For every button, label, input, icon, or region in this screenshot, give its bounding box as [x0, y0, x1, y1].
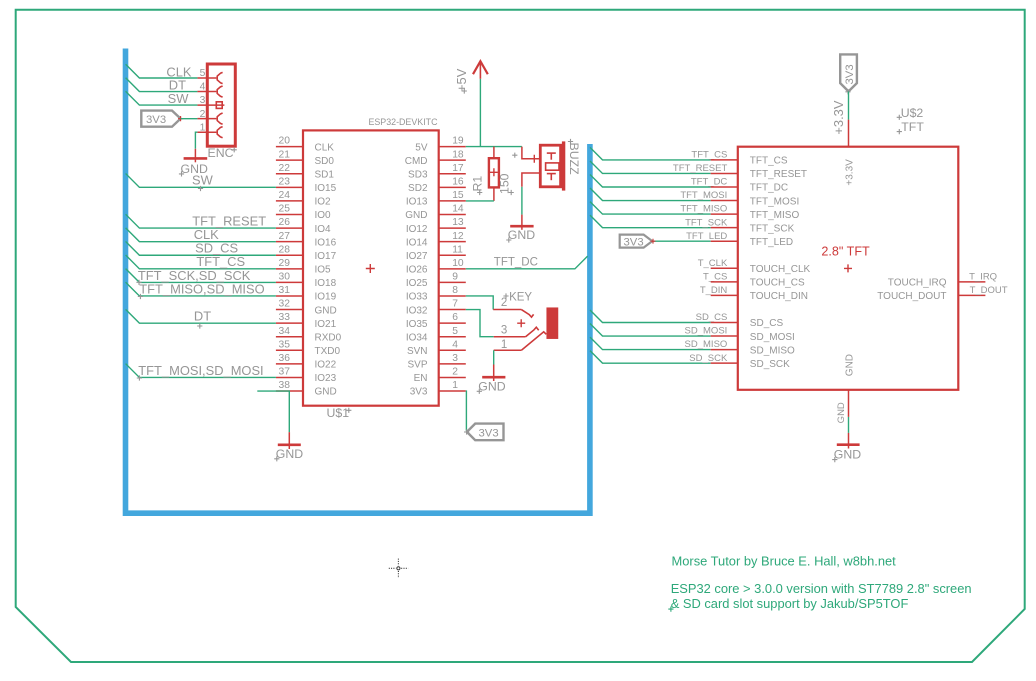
svg-text:IO23: IO23 — [315, 373, 337, 384]
svg-text:5: 5 — [452, 326, 458, 337]
svg-text:TFT_MOSI,SD_MOSI: TFT_MOSI,SD_MOSI — [138, 363, 263, 378]
svg-text:TFT_DC: TFT_DC — [494, 256, 538, 268]
svg-text:TFT_RESET: TFT_RESET — [673, 163, 728, 174]
svg-text:SD_MISO: SD_MISO — [685, 339, 728, 350]
svg-text:3V3: 3V3 — [624, 236, 644, 248]
power symbol +5V stem — [479, 61, 481, 79]
svg-text:TFT_CS: TFT_CS — [691, 150, 727, 161]
svg-text:TOUCH_DIN: TOUCH_DIN — [750, 291, 808, 302]
wire net TFT_MISO,SD_MISO (bus tap to ESP32 pin 31) — [126, 282, 276, 296]
power flag 3V3 tip cross — [178, 116, 183, 121]
svg-text:1: 1 — [452, 380, 458, 391]
wire net CLK (bus tap to ENC pin 5) — [126, 64, 198, 78]
svg-text:TFT_DC: TFT_DC — [750, 183, 788, 194]
svg-text:TFT: TFT — [901, 120, 924, 134]
wire net GND (ENC pin 1 down) — [195, 132, 197, 149]
svg-text:CLK: CLK — [315, 142, 335, 153]
module value origin cross — [897, 129, 902, 134]
wire net TFT_MOSI (bus tap to TFT) — [590, 188, 711, 201]
note text origin cross — [668, 607, 673, 612]
ground label origin cross — [506, 237, 511, 242]
module U$2 2.8" TFT body — [738, 147, 959, 390]
ground symbol GND (below buzzer) bar — [510, 225, 533, 228]
connector ENC pin 1 line — [197, 131, 216, 133]
wire net TFT_SCK (bus tap to TFT) — [590, 215, 711, 228]
TFT left pin TFT_SCK line — [711, 227, 738, 229]
TFT left pin SD_MISO line — [711, 349, 738, 351]
svg-text:36: 36 — [279, 353, 291, 364]
connector ENC label origin cross — [232, 147, 237, 152]
ESP32 left pin 25 line — [276, 214, 303, 216]
ESP32 right pin 13 line — [439, 227, 466, 229]
svg-text:9: 9 — [452, 272, 458, 283]
wire net TFT_DC (bus tap to TFT) — [590, 175, 711, 188]
ESP32 left pin 36 line — [276, 363, 303, 365]
svg-text:3V3: 3V3 — [844, 64, 856, 84]
ground label origin cross — [274, 456, 279, 461]
svg-text:GND: GND — [508, 228, 535, 242]
ESP32 right pin 10 line — [439, 268, 466, 270]
svg-text:GND: GND — [478, 379, 505, 393]
svg-text:16: 16 — [452, 176, 464, 187]
svg-text:GND: GND — [836, 402, 847, 423]
svg-text:17: 17 — [452, 163, 464, 174]
power flag tip cross — [651, 239, 656, 244]
bus B$1 (blue wiring bus, left/bottom/right run) — [126, 49, 590, 514]
svg-text:5: 5 — [200, 68, 206, 79]
connector ENC pin 3 line — [197, 104, 224, 106]
wire net TFT_RESET (bus tap to ESP32 pin 26) — [126, 214, 276, 228]
ground symbol GND (below TFT) stem — [848, 433, 850, 449]
TFT left pin TFT_CS line — [711, 159, 738, 161]
svg-text:TFT_MISO,SD_MISO: TFT_MISO,SD_MISO — [139, 281, 264, 296]
module U$1 ESP32-DEVKITC body — [303, 130, 439, 405]
buzzer BUZZ element top stem — [550, 153, 552, 160]
ESP32 right pin 5 line — [439, 336, 466, 338]
wire net IO13 (ESP32 pin 15 to R1) — [466, 200, 494, 202]
svg-text:32: 32 — [279, 299, 291, 310]
svg-text:TFT_RESET: TFT_RESET — [750, 169, 807, 180]
svg-text:GND: GND — [315, 387, 337, 398]
svg-text:+3.3V: +3.3V — [845, 159, 856, 186]
svg-text:1: 1 — [501, 339, 507, 351]
svg-text:28: 28 — [279, 244, 291, 255]
ESP32 left pin 37 line — [276, 376, 303, 378]
TFT right pin TOUCH_IRQ line — [958, 281, 985, 283]
svg-text:3: 3 — [200, 95, 206, 106]
jack KEY name origin cross — [503, 293, 508, 298]
svg-text:GND: GND — [315, 305, 337, 316]
buzzer BUZZ element plate — [546, 163, 559, 170]
svg-text:TOUCH_IRQ: TOUCH_IRQ — [888, 278, 947, 289]
TFT left pin TFT_DC line — [711, 186, 738, 188]
power flag 3V3 (TFT_LED) — [620, 235, 653, 248]
connector ENC body — [207, 64, 235, 146]
power symbol tip cross — [845, 89, 850, 94]
svg-text:3V3: 3V3 — [146, 114, 166, 126]
svg-text:IO34: IO34 — [406, 332, 428, 343]
svg-text:SD1: SD1 — [315, 169, 335, 180]
ESP32 right pin 8 line — [439, 295, 466, 297]
svg-text:RXD0: RXD0 — [315, 332, 342, 343]
resistor R1 value origin cross — [509, 190, 514, 195]
svg-text:29: 29 — [279, 258, 291, 269]
wire net KEY2 (ESP32 pin 8 to jack pin 2) — [466, 296, 493, 310]
svg-text:IO15: IO15 — [315, 183, 337, 194]
connector ENC pin 3 contact — [216, 102, 222, 109]
ESP32 left pin 23 line — [276, 186, 303, 188]
wire net SD_CS (bus tap to ESP32 pin 28) — [126, 241, 276, 255]
jack KEY pin 3 contact — [526, 327, 539, 337]
svg-text:SD_CS: SD_CS — [696, 312, 728, 323]
svg-text:GND: GND — [276, 447, 303, 461]
TFT left pin SD_CS line — [711, 322, 738, 324]
svg-text:27: 27 — [279, 231, 291, 242]
ESP32 left pin 27 line — [276, 241, 303, 243]
buzzer BUZZ element top bar — [547, 152, 556, 154]
svg-text:IO16: IO16 — [315, 237, 337, 248]
module reference origin cross — [897, 115, 902, 120]
jack KEY pin 2 contact — [521, 310, 533, 318]
svg-text:IO5: IO5 — [315, 265, 332, 276]
svg-text:3V3: 3V3 — [410, 387, 428, 398]
TFT left pin TOUCH_CS line — [711, 281, 738, 283]
ground symbol GND (below TFT) bar — [837, 443, 860, 446]
ESP32 right pin 3 line — [439, 363, 466, 365]
ESP32 right pin 17 line — [439, 173, 466, 175]
svg-text:TOUCH_DOUT: TOUCH_DOUT — [877, 291, 946, 302]
jack KEY pin 1 line — [494, 349, 522, 351]
module reference origin cross — [346, 408, 351, 413]
svg-text:SD3: SD3 — [408, 169, 428, 180]
ESP32 left pin 26 line — [276, 227, 303, 229]
svg-text:T_DOUT: T_DOUT — [970, 285, 1008, 296]
wire net TFT_CS (bus tap to ESP32 pin 29) — [126, 255, 276, 269]
wire net GND (buzzer pin 2 down) — [521, 187, 523, 215]
ground label origin cross — [832, 457, 837, 462]
svg-text:IO27: IO27 — [406, 251, 428, 262]
net label TFT_MISO,SD_MISO origin cross — [138, 294, 143, 299]
svg-text:TFT_CS: TFT_CS — [750, 156, 788, 167]
wire net 3V3 (tag to ENC pin 2) — [181, 118, 198, 120]
svg-text:T_CS: T_CS — [703, 271, 727, 282]
ESP32 left pin 24 line — [276, 200, 303, 202]
svg-text:21: 21 — [279, 149, 291, 160]
svg-text:IO21: IO21 — [315, 319, 337, 330]
resistor R1 name origin cross — [477, 190, 482, 195]
svg-text:T_IRQ: T_IRQ — [969, 271, 997, 282]
svg-text:24: 24 — [279, 190, 291, 201]
svg-text:TFT_MOSI: TFT_MOSI — [680, 190, 727, 201]
svg-text:IO22: IO22 — [315, 360, 337, 371]
svg-text:150: 150 — [498, 173, 512, 194]
ESP32 right pin 14 line — [439, 214, 466, 216]
svg-text:7: 7 — [452, 299, 458, 310]
TFT bottom pin GND line — [848, 390, 850, 417]
wire net TFT_CS (bus tap to TFT) — [590, 147, 711, 160]
svg-text:IO18: IO18 — [315, 278, 337, 289]
ground symbol GND (below ENC) stem — [194, 149, 196, 163]
svg-text:IO14: IO14 — [406, 237, 428, 248]
svg-text:T_DIN: T_DIN — [700, 285, 728, 296]
svg-text:T_CLK: T_CLK — [698, 258, 728, 269]
svg-text:SW: SW — [168, 91, 190, 106]
wire net +5V (riser) — [479, 79, 481, 147]
svg-text:15: 15 — [452, 190, 464, 201]
svg-text:23: 23 — [279, 176, 291, 187]
ESP32 right pin 9 line — [439, 281, 466, 283]
buzzer BUZZ body — [540, 145, 560, 187]
connector ENC pin 5 line — [197, 77, 216, 79]
wire net SW (bus tap to ENC pin 3) — [126, 91, 198, 105]
svg-text:TFT_MOSI: TFT_MOSI — [750, 196, 799, 207]
svg-text:4: 4 — [452, 339, 458, 350]
TFT top pin +3.3V line — [848, 120, 850, 147]
wire net SD_MISO (bus tap to TFT) — [590, 337, 711, 350]
TFT left pin TOUCH_DIN line — [711, 294, 738, 296]
svg-text:GND: GND — [845, 354, 856, 376]
svg-text:ENC: ENC — [208, 146, 234, 160]
svg-text:IO26: IO26 — [406, 265, 428, 276]
ESP32 right pin 15 line — [439, 200, 466, 202]
power flag tip cross — [464, 429, 469, 434]
svg-text:2: 2 — [501, 297, 507, 309]
buzzer BUZZ element bottom stem — [550, 174, 552, 181]
power symbol +5V arrow — [473, 61, 488, 74]
TFT left pin TFT_RESET line — [711, 172, 738, 174]
resistor R1 top lead — [493, 147, 495, 159]
jack KEY plug body — [547, 308, 557, 338]
wire net TFT_DC (ESP32 pin 10 to bus) — [466, 256, 588, 269]
svg-text:2.8" TFT: 2.8" TFT — [821, 245, 870, 259]
wire net SD_CS (bus tap to TFT) — [590, 310, 711, 323]
TFT left pin TOUCH_CLK line — [711, 267, 738, 269]
jack KEY pin 1 contact — [521, 332, 546, 351]
svg-text:38: 38 — [279, 380, 291, 391]
power flag 3V3 (tag at ENC pin 2) — [141, 111, 180, 127]
net label TFT_SCK,SD_SCK origin cross — [136, 280, 141, 285]
wire net TFT_SCK,SD_SCK (bus tap to ESP32 pin 30) — [126, 269, 276, 283]
wire net GND (ESP32 pin 38 to ground) — [257, 391, 289, 432]
svg-text:EN: EN — [414, 373, 428, 384]
ESP32 right pin 12 line — [439, 241, 466, 243]
svg-text:DT: DT — [194, 309, 211, 324]
svg-text:IO17: IO17 — [315, 251, 337, 262]
wire net 3V3 (ESP32 pin 1 down) — [465, 391, 468, 431]
buzzer BUZZ pin 2 bent lead — [522, 173, 540, 187]
ground label origin cross — [179, 171, 184, 176]
svg-text:IO12: IO12 — [406, 224, 428, 235]
ESP32 right pin 4 line — [439, 349, 466, 351]
svg-text:6: 6 — [452, 312, 458, 323]
ESP32 left pin 31 line — [276, 295, 303, 297]
module U$2 origin cross — [844, 264, 852, 272]
wire net KEY3 (ESP32 pin 7 to jack pin 3) — [466, 310, 494, 337]
svg-text:2: 2 — [452, 367, 458, 378]
svg-text:13: 13 — [452, 217, 464, 228]
ground symbol GND (below ESP32) bar — [278, 443, 301, 446]
svg-text:5V: 5V — [415, 142, 428, 153]
wire net +3.3V (3V3 symbol to TFT) — [848, 91, 850, 119]
svg-text:TFT_LED: TFT_LED — [750, 237, 793, 248]
svg-text:19: 19 — [452, 136, 464, 147]
connector ENC pin 4 contact — [217, 86, 222, 97]
ESP32 right pin 2 line — [439, 376, 466, 378]
connector ENC pin 2 line — [197, 118, 216, 120]
svg-text:SD_CS: SD_CS — [750, 318, 784, 329]
ESP32 right pin 6 line — [439, 322, 466, 324]
buzzer BUZZ name origin cross — [568, 139, 573, 144]
svg-text:IO32: IO32 — [406, 305, 428, 316]
svg-text:26: 26 — [279, 217, 291, 228]
svg-text:+3.3V: +3.3V — [831, 100, 846, 134]
svg-text:18: 18 — [452, 149, 464, 160]
wire net +5V (ESP32 pin 19 run) — [466, 146, 522, 148]
ESP32 left pin 28 line — [276, 254, 303, 256]
svg-text:8: 8 — [452, 285, 458, 296]
svg-text:U$1: U$1 — [327, 406, 350, 420]
TFT left pin SD_SCK line — [711, 362, 738, 364]
svg-text:IO0: IO0 — [315, 210, 332, 221]
TFT left pin TFT_MOSI line — [711, 200, 738, 202]
svg-text:14: 14 — [452, 204, 464, 215]
connector ENC pin 1 contact — [217, 127, 222, 138]
svg-text:TFT_MISO: TFT_MISO — [750, 210, 800, 221]
svg-text:SD_MISO: SD_MISO — [750, 345, 795, 356]
ESP32 left pin 30 line — [276, 281, 303, 283]
jack KEY pin 2 line — [493, 309, 521, 311]
ESP32 left pin 34 line — [276, 336, 303, 338]
ESP32 left pin 35 line — [276, 349, 303, 351]
svg-text:GND: GND — [834, 448, 861, 462]
svg-text:IO19: IO19 — [315, 292, 337, 303]
ground symbol GND (below jack) stem — [493, 365, 495, 382]
svg-text:IO13: IO13 — [406, 197, 428, 208]
wire net TFT_MOSI,SD_MOSI (bus tap to ESP32 pin 37) — [126, 364, 276, 378]
svg-text:3V3: 3V3 — [479, 427, 499, 439]
svg-text:10: 10 — [452, 258, 464, 269]
wire net SD_MOSI (bus tap to TFT) — [590, 324, 711, 337]
svg-text:2: 2 — [200, 109, 206, 120]
module U$1 origin cross — [366, 264, 375, 273]
ESP32 left pin 21 line — [276, 159, 303, 161]
connector ENC pin 4 line — [197, 91, 216, 93]
net label TFT_MOSI,SD_MOSI origin cross — [137, 375, 142, 380]
svg-text:Morse Tutor by Bruce E. Hall,: Morse Tutor by Bruce E. Hall, w8bh.net — [672, 554, 897, 569]
ESP32 left pin 38 line — [276, 390, 303, 392]
TFT left pin SD_MOSI line — [711, 335, 738, 337]
svg-text:TXD0: TXD0 — [315, 346, 341, 357]
svg-text:3: 3 — [452, 353, 458, 364]
svg-text:+5V: +5V — [454, 68, 469, 92]
wire net GND (jack pin 1 down) — [493, 350, 495, 364]
svg-text:SD_SCK: SD_SCK — [689, 353, 728, 364]
ESP32 right pin 16 line — [439, 186, 466, 188]
svg-text:IO25: IO25 — [406, 278, 428, 289]
svg-text:ESP32-DEVKITC: ESP32-DEVKITC — [368, 117, 438, 127]
ESP32 left pin 33 line — [276, 322, 303, 324]
power flag 3V3 (below ESP32) — [467, 424, 504, 441]
svg-text:25: 25 — [279, 204, 291, 215]
svg-text:IO2: IO2 — [315, 197, 332, 208]
resistor R1 body — [489, 158, 499, 187]
svg-text:SD2: SD2 — [408, 183, 428, 194]
svg-text:CMD: CMD — [405, 156, 428, 167]
ESP32 left pin 29 line — [276, 268, 303, 270]
buzzer BUZZ origin cross — [530, 155, 538, 163]
sheet origin crosshair (dotted) — [389, 559, 408, 578]
svg-text:SD0: SD0 — [315, 156, 335, 167]
wire net SW2 (bus tap to ESP32 pin 23) — [126, 174, 276, 188]
svg-text:31: 31 — [279, 285, 291, 296]
ESP32 right pin 11 line — [439, 254, 466, 256]
ESP32 right pin 19 line — [439, 146, 466, 148]
jack KEY pin 3 line — [494, 336, 526, 338]
jack KEY origin cross — [517, 319, 525, 327]
svg-text:12: 12 — [452, 231, 464, 242]
ground symbol GND (below jack) bar — [482, 376, 505, 379]
svg-text:& SD card slot support by Jaku: & SD card slot support by Jakub/SP5TOF — [671, 596, 909, 611]
buzzer BUZZ value origin cross — [512, 153, 517, 158]
power label +5V origin cross — [462, 88, 467, 93]
svg-text:IO35: IO35 — [406, 319, 428, 330]
net label DT2 origin cross — [197, 323, 202, 328]
svg-text:TFT_LED: TFT_LED — [686, 231, 727, 242]
svg-text:34: 34 — [279, 326, 291, 337]
svg-text:35: 35 — [279, 339, 291, 350]
wire net TFT_RESET (bus tap to TFT) — [590, 161, 711, 174]
wire net CLK2 (bus tap to ESP32 pin 27) — [126, 228, 276, 242]
svg-text:KEY: KEY — [509, 292, 532, 304]
ground symbol GND (below ENC) bar — [184, 157, 208, 160]
svg-text:TFT_SCK: TFT_SCK — [685, 217, 728, 228]
svg-text:U$2: U$2 — [901, 106, 924, 120]
svg-text:R1: R1 — [471, 176, 485, 192]
svg-text:SVN: SVN — [407, 346, 428, 357]
connector ENC pin 2 contact — [217, 113, 222, 124]
wire net DT2 (bus tap to ESP32 pin 33) — [126, 309, 276, 323]
ESP32 left pin 22 line — [276, 173, 303, 175]
svg-text:37: 37 — [279, 367, 291, 378]
connector ENC pin 5 contact — [217, 72, 222, 83]
svg-text:22: 22 — [279, 163, 291, 174]
wire net DT (bus tap to ENC pin 4) — [126, 78, 198, 92]
svg-text:30: 30 — [279, 272, 291, 283]
svg-text:33: 33 — [279, 312, 291, 323]
svg-text:BUZZ: BUZZ — [567, 143, 581, 176]
ESP32 right pin 1 line — [439, 390, 466, 392]
ground symbol GND (below buzzer) stem — [521, 215, 523, 230]
wire net SD_SCK (bus tap to TFT) — [590, 351, 711, 364]
ground symbol GND (below ESP32) stem — [288, 432, 290, 449]
resistor R1 origin cross — [490, 168, 498, 176]
buzzer BUZZ pin 1 bent lead — [522, 147, 540, 159]
svg-text:ESP32 core > 3.0.0 version wit: ESP32 core > 3.0.0 version with ST7789 2… — [671, 581, 972, 596]
svg-text:SD_MOSI: SD_MOSI — [685, 326, 728, 337]
svg-text:TOUCH_CS: TOUCH_CS — [750, 278, 805, 289]
wire net TFT_LED (tag to TFT) — [652, 240, 711, 242]
TFT left pin TFT_MISO line — [711, 213, 738, 215]
wire net TFT_MISO (bus tap to TFT) — [590, 202, 711, 215]
ESP32 left pin 20 line — [276, 146, 303, 148]
TFT right pin TOUCH_DOUT line — [958, 294, 985, 296]
buzzer BUZZ sounder bar — [562, 141, 565, 190]
svg-text:IO33: IO33 — [406, 292, 428, 303]
wire net GND (TFT bottom pin down) — [848, 417, 850, 433]
power symbol 3V3 (above TFT) — [840, 54, 857, 91]
svg-text:11: 11 — [452, 244, 463, 255]
svg-text:SD_MOSI: SD_MOSI — [750, 332, 795, 343]
